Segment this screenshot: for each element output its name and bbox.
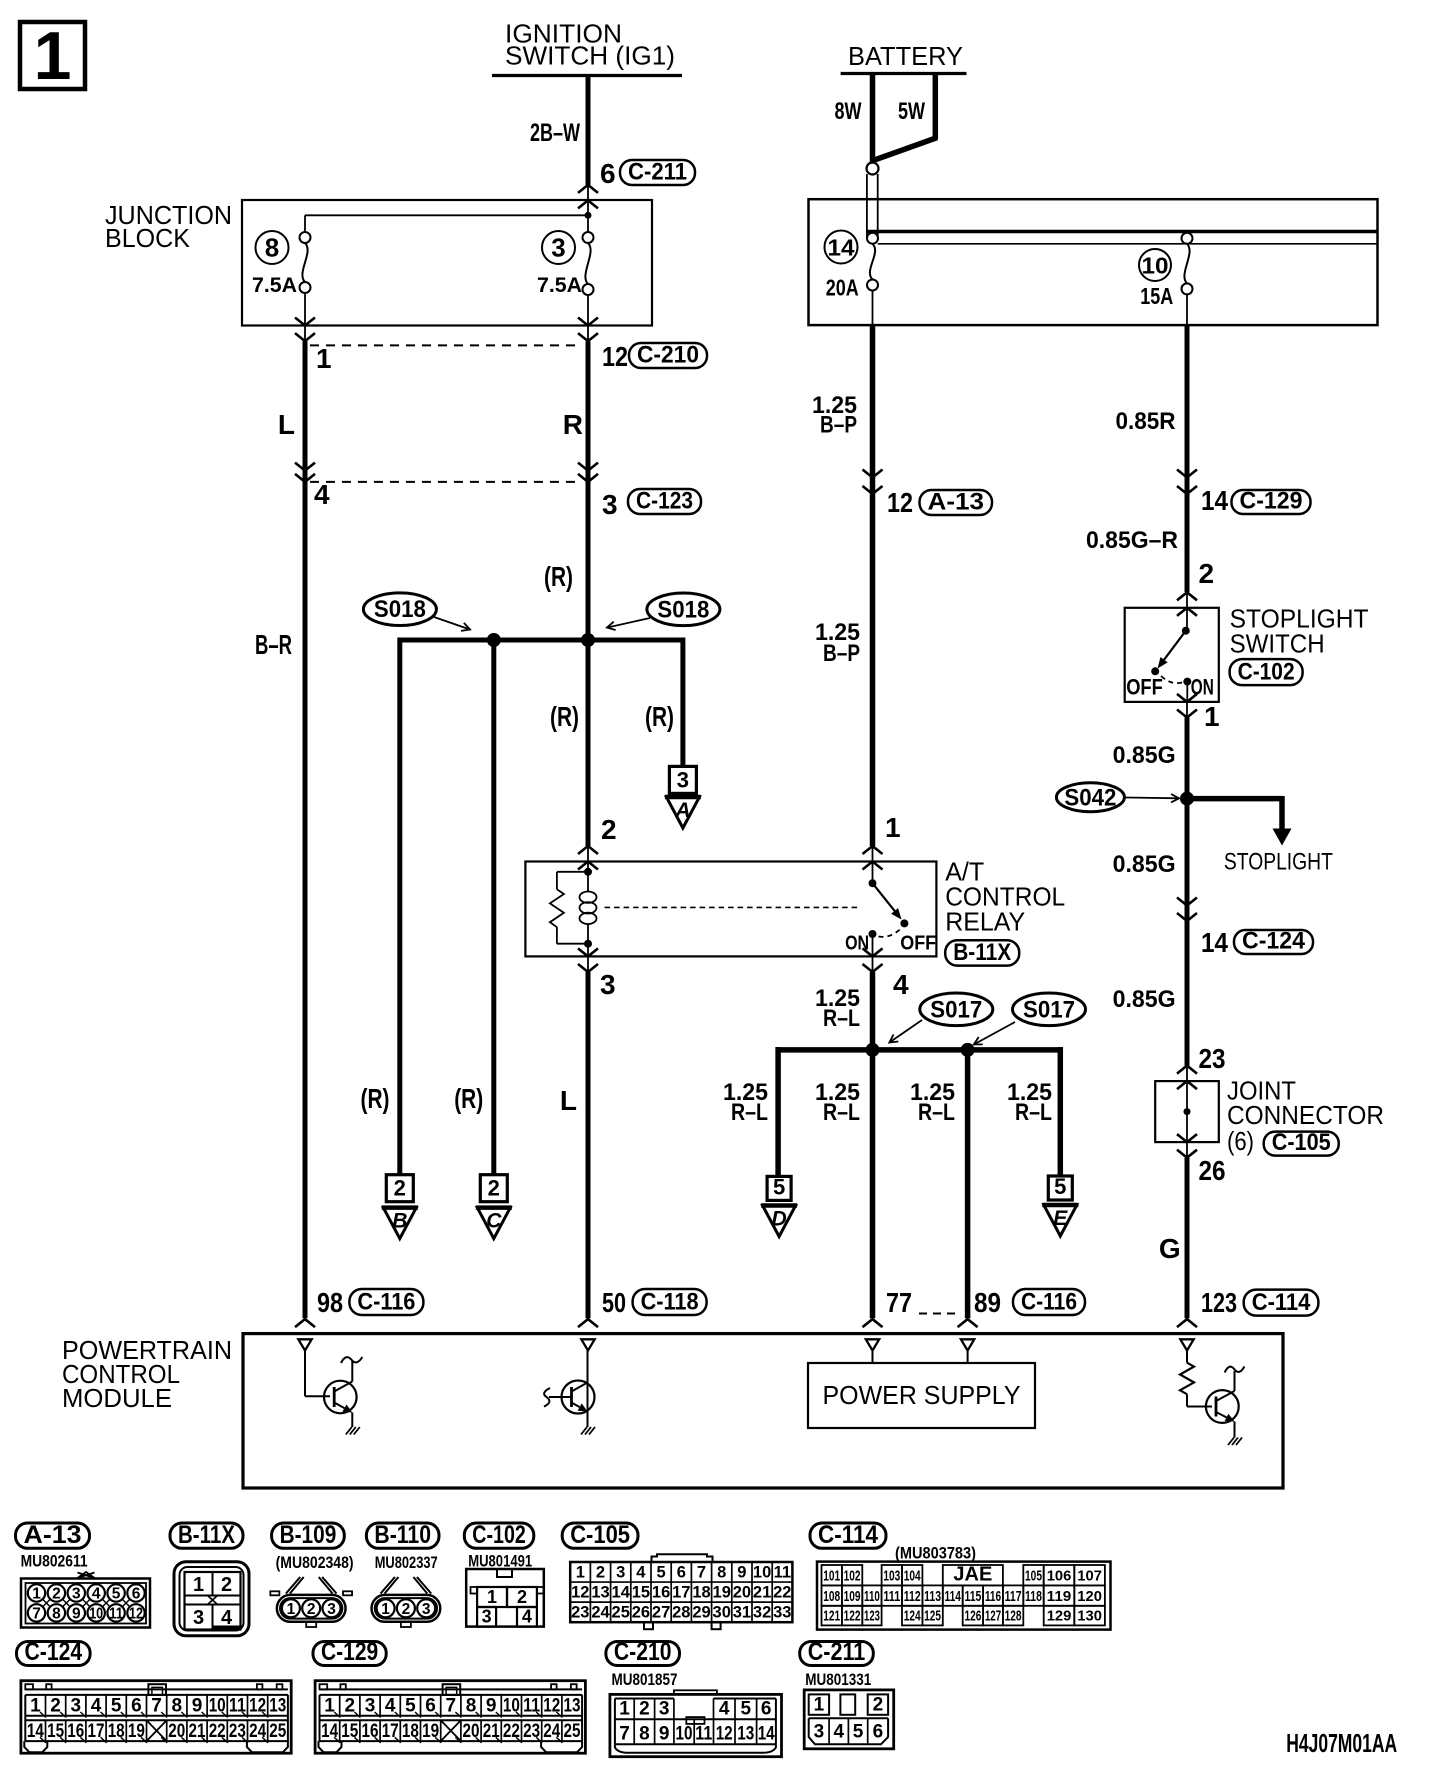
connector B-110 pinout <box>372 1595 441 1622</box>
stoplight switch OFF contact dot <box>1151 667 1159 675</box>
relay contact arm <box>873 883 895 911</box>
page number box <box>20 22 85 89</box>
wire joint entry lead <box>1186 1066 1188 1082</box>
svg-text:1: 1 <box>193 1574 204 1596</box>
connector C-116 ref right <box>1013 1289 1085 1315</box>
fuse 8 bottom lead <box>304 293 306 326</box>
svg-text:6: 6 <box>677 1563 686 1581</box>
svg-text:22: 22 <box>209 1721 226 1742</box>
wire S018 splice bar <box>400 638 683 643</box>
svg-text:119: 119 <box>1047 1588 1072 1605</box>
svg-text:106: 106 <box>1047 1567 1072 1584</box>
svg-text:R–L: R–L <box>731 1099 768 1126</box>
ground Q4 <box>1228 1438 1234 1446</box>
svg-text:112: 112 <box>904 1588 921 1605</box>
splice S042 ref <box>1056 783 1124 812</box>
svg-text:14: 14 <box>758 1724 775 1745</box>
svg-text:50: 50 <box>602 1287 626 1318</box>
svg-text:E: E <box>1053 1207 1068 1230</box>
svg-text:L: L <box>278 409 295 440</box>
relay actuation dashed line <box>605 906 860 908</box>
relay entry chevrons contact <box>863 846 883 854</box>
svg-text:77: 77 <box>886 1287 912 1318</box>
joint connector box <box>1155 1081 1219 1142</box>
svg-text:9: 9 <box>737 1563 746 1581</box>
svg-text:S017: S017 <box>930 996 982 1023</box>
connector C-114 ref <box>1244 1290 1319 1316</box>
svg-text:1: 1 <box>324 1696 335 1717</box>
svg-text:1: 1 <box>30 1696 41 1717</box>
svg-text:4: 4 <box>893 969 909 1000</box>
transistor Q4 emitter <box>1216 1412 1226 1417</box>
relay OFF contact dot <box>900 919 908 927</box>
fusible link lead-in double wire <box>866 174 868 237</box>
svg-text:12: 12 <box>571 1583 589 1601</box>
svg-text:13: 13 <box>269 1696 286 1717</box>
svg-text:16: 16 <box>652 1583 670 1601</box>
connector B-11X ref <box>945 940 1019 965</box>
svg-text:MU802337: MU802337 <box>375 1553 438 1572</box>
relay ON contact dot <box>869 930 877 938</box>
svg-text:MU801331: MU801331 <box>805 1670 871 1689</box>
terminal 2 pin box C <box>480 1175 507 1202</box>
svg-text:(R): (R) <box>550 701 579 732</box>
wire relay entry lead contact <box>872 846 874 862</box>
svg-text:109: 109 <box>844 1588 861 1605</box>
svg-text:7: 7 <box>446 1696 457 1717</box>
PCM pin 98 terminal <box>298 1339 311 1350</box>
svg-text:23: 23 <box>1199 1043 1226 1074</box>
svg-text:S018: S018 <box>657 596 709 623</box>
relay coil <box>580 892 597 903</box>
wire relay exit lead coil <box>587 956 589 972</box>
svg-text:B-11X: B-11X <box>953 939 1011 966</box>
connector C-211 pinout <box>804 1690 894 1749</box>
fuse 8 number circle <box>256 231 289 264</box>
svg-text:2: 2 <box>488 1176 500 1201</box>
svg-text:3: 3 <box>616 1563 625 1581</box>
svg-text:2: 2 <box>52 1586 61 1603</box>
svg-text:12: 12 <box>716 1724 733 1745</box>
wire stoplight branch <box>1187 796 1282 802</box>
svg-text:24: 24 <box>591 1603 610 1621</box>
svg-text:104: 104 <box>904 1567 921 1584</box>
connector C-105 ref <box>1264 1132 1339 1156</box>
svg-text:121: 121 <box>823 1607 840 1624</box>
PCM pin 123 chevron <box>1177 1319 1197 1327</box>
wire joint exit lead <box>1186 1142 1188 1158</box>
resistor R1 <box>1180 1363 1194 1395</box>
svg-text:1: 1 <box>576 1563 585 1581</box>
svg-text:B: B <box>392 1210 407 1233</box>
svg-text:108: 108 <box>823 1588 840 1605</box>
relay contact bottom lead <box>872 934 874 956</box>
svg-text:17: 17 <box>382 1721 399 1742</box>
svg-text:5: 5 <box>853 1722 864 1743</box>
svg-text:5: 5 <box>112 1586 121 1603</box>
terminal arrow C <box>477 1208 510 1239</box>
svg-text:C-114: C-114 <box>1252 1289 1311 1316</box>
relay exit chevrons contact <box>863 948 883 956</box>
wire battery 5W <box>933 74 939 140</box>
PCM pin 50 terminal <box>581 1339 594 1350</box>
svg-text:SWITCH (IG1): SWITCH (IG1) <box>505 41 675 71</box>
svg-text:3: 3 <box>72 1586 81 1603</box>
svg-text:5: 5 <box>773 1174 785 1199</box>
svg-text:7: 7 <box>619 1724 630 1745</box>
fusible link ring terminal <box>867 163 879 175</box>
connector C-124 ref <box>1234 930 1313 954</box>
wire 0.85G stoplight to splice <box>1185 718 1190 1066</box>
svg-text:C-114: C-114 <box>818 1521 878 1549</box>
svg-text:S042: S042 <box>1064 784 1116 811</box>
relay dashed throw <box>879 929 901 937</box>
svg-text:1: 1 <box>316 343 332 374</box>
wire branch to terminal A <box>680 638 685 767</box>
relay contact top lead <box>872 862 874 884</box>
svg-text:24: 24 <box>249 1721 266 1742</box>
svg-text:C-211: C-211 <box>628 159 687 186</box>
svg-text:(MU802348): (MU802348) <box>276 1553 354 1572</box>
junction block box <box>242 200 652 326</box>
svg-text:4: 4 <box>314 479 330 510</box>
terminal arrow B <box>383 1208 416 1239</box>
svg-text:4: 4 <box>385 1696 396 1717</box>
svg-text:9: 9 <box>486 1696 497 1717</box>
wire branch to terminal B <box>397 638 402 1175</box>
connector C-102 pinout <box>466 1569 544 1627</box>
svg-text:C-124: C-124 <box>1242 928 1306 955</box>
battery bus bar thick <box>867 230 1378 234</box>
svg-text:1: 1 <box>1204 701 1220 732</box>
connector C-114 pinout label <box>810 1523 886 1548</box>
connector A-13 ref <box>920 490 993 515</box>
svg-text:3: 3 <box>365 1696 376 1717</box>
connector C-129 ref <box>1232 490 1311 514</box>
svg-text:1: 1 <box>814 1695 825 1716</box>
svg-text:25: 25 <box>564 1721 581 1742</box>
transistor Q4 internal squiggle <box>1225 1367 1245 1373</box>
wire branch to terminal C <box>491 640 496 1175</box>
svg-text:13: 13 <box>737 1724 754 1745</box>
svg-text:22: 22 <box>503 1721 520 1742</box>
svg-text:7.5A: 7.5A <box>537 274 582 297</box>
connector C-129 chevrons <box>1177 470 1197 478</box>
svg-text:2: 2 <box>50 1696 61 1717</box>
svg-text:8: 8 <box>52 1606 61 1623</box>
svg-text:21: 21 <box>483 1721 500 1742</box>
svg-text:S018: S018 <box>374 596 426 623</box>
svg-text:4: 4 <box>91 1696 102 1717</box>
svg-text:C-211: C-211 <box>808 1638 866 1666</box>
wire G joint connector to PCM <box>1185 1158 1190 1319</box>
connector B-11X pinout <box>174 1562 249 1636</box>
svg-text:3: 3 <box>327 1601 336 1618</box>
svg-text:3: 3 <box>677 767 689 792</box>
svg-text:(R): (R) <box>454 1083 483 1114</box>
svg-text:130: 130 <box>1077 1607 1102 1624</box>
svg-text:11: 11 <box>774 1563 791 1581</box>
connector C-210 exit chevrons left <box>295 318 315 326</box>
connector C-129 pinout <box>315 1681 585 1754</box>
ground Q1 <box>346 1427 352 1435</box>
stoplight switch dashed throw <box>1161 676 1184 683</box>
svg-text:128: 128 <box>1005 1607 1022 1624</box>
svg-text:25: 25 <box>269 1721 286 1742</box>
svg-text:C: C <box>486 1210 502 1233</box>
wire pin 89 to power supply <box>967 1351 969 1364</box>
svg-text:14: 14 <box>612 1583 631 1601</box>
svg-text:(R): (R) <box>645 701 674 732</box>
terminal 2 pin box B <box>386 1175 413 1202</box>
svg-text:3: 3 <box>193 1607 204 1629</box>
stoplight switch entry chevrons <box>1177 592 1197 600</box>
svg-text:116: 116 <box>985 1588 1001 1605</box>
svg-text:25: 25 <box>612 1603 630 1621</box>
svg-text:2: 2 <box>873 1695 884 1716</box>
svg-text:2: 2 <box>402 1601 411 1618</box>
transistor Q2 emitter arrow <box>572 1403 580 1408</box>
svg-text:S017: S017 <box>1023 996 1075 1023</box>
svg-text:7: 7 <box>151 1696 162 1717</box>
svg-text:9: 9 <box>72 1606 81 1623</box>
wire branch to terminal E <box>1058 1047 1064 1176</box>
connector C-123 chevrons right <box>578 463 598 471</box>
transistor Q1 emitter <box>334 1403 344 1409</box>
svg-text:20: 20 <box>463 1721 480 1742</box>
svg-text:120: 120 <box>1077 1588 1102 1605</box>
splice S018 dot 2 <box>581 633 595 647</box>
svg-text:5W: 5W <box>898 98 925 125</box>
svg-text:10: 10 <box>89 1606 103 1623</box>
svg-text:C-102: C-102 <box>472 1521 526 1549</box>
svg-text:15: 15 <box>341 1721 358 1742</box>
svg-text:98: 98 <box>317 1287 343 1318</box>
connector C-114 pinout <box>817 1562 1111 1630</box>
stoplight switch arm <box>1164 631 1186 660</box>
svg-text:14: 14 <box>1201 485 1228 516</box>
PCM pin 123 terminal <box>1180 1339 1193 1350</box>
svg-text:D: D <box>772 1208 787 1231</box>
PCM pin 50 chevron <box>578 1319 598 1327</box>
svg-text:17: 17 <box>88 1721 105 1742</box>
splice S018 arrow right <box>607 618 650 628</box>
svg-text:2B–W: 2B–W <box>530 119 580 147</box>
svg-text:123: 123 <box>864 1607 880 1624</box>
svg-text:0.85R: 0.85R <box>1116 408 1176 435</box>
connector C-211 ref <box>620 160 695 185</box>
svg-text:4: 4 <box>92 1586 101 1603</box>
svg-text:9: 9 <box>659 1724 670 1745</box>
svg-text:C-105: C-105 <box>1272 1129 1331 1156</box>
ignition switch bus line <box>492 74 682 77</box>
svg-text:MU802611: MU802611 <box>21 1552 88 1571</box>
terminal 3 pin box <box>669 766 696 793</box>
junction block internal bus wire <box>305 214 588 216</box>
svg-text:(R): (R) <box>361 1083 390 1114</box>
svg-text:C-116: C-116 <box>1021 1289 1077 1316</box>
svg-text:12: 12 <box>129 1606 143 1623</box>
svg-text:13: 13 <box>564 1696 581 1717</box>
powertrain control module box <box>243 1334 1283 1488</box>
svg-text:A-13: A-13 <box>928 489 985 516</box>
relay exit chevrons coil <box>578 948 598 956</box>
svg-text:24: 24 <box>543 1721 560 1742</box>
connector B-109 pinout <box>277 1595 346 1622</box>
stoplight switch output lead <box>1186 682 1188 702</box>
connector C-124 chevrons <box>1177 898 1197 906</box>
stoplight switch exit chevrons <box>1177 694 1197 702</box>
svg-text:103: 103 <box>883 1567 900 1584</box>
connector A-13 chevrons <box>863 470 883 478</box>
svg-text:R: R <box>563 409 583 440</box>
svg-text:6: 6 <box>600 158 616 189</box>
svg-text:20A: 20A <box>826 275 859 301</box>
fuse 10 symbol <box>1182 233 1193 244</box>
battery fuse box <box>809 199 1378 325</box>
fuse 14 bottom lead <box>872 291 874 326</box>
connector C-105 pinout label <box>562 1523 638 1548</box>
svg-text:15: 15 <box>47 1721 64 1742</box>
connector C-102 ref <box>1230 659 1303 685</box>
wire R-L to PCM 77 <box>870 1050 876 1318</box>
relay contact pivot dot <box>869 879 877 887</box>
svg-text:2: 2 <box>601 814 617 845</box>
svg-text:118: 118 <box>1025 1588 1042 1605</box>
svg-text:28: 28 <box>672 1603 690 1621</box>
svg-text:C-129: C-129 <box>1240 488 1303 515</box>
svg-text:113: 113 <box>924 1588 941 1605</box>
svg-text:111: 111 <box>883 1588 900 1605</box>
svg-text:1: 1 <box>34 18 72 94</box>
relay parallel resistor <box>557 871 588 873</box>
wire 2B-W ignition feed <box>586 76 591 186</box>
wire R-L relay to splice <box>870 972 876 1050</box>
fuse 3 number circle <box>542 231 575 264</box>
svg-text:R–L: R–L <box>823 1005 860 1032</box>
connector C-210 pinout <box>610 1694 782 1756</box>
fuse 3 symbol <box>583 232 594 243</box>
svg-text:STOPLIGHT: STOPLIGHT <box>1224 849 1333 876</box>
terminal arrow D <box>763 1206 796 1237</box>
splice S018 ref left <box>363 593 436 626</box>
svg-text:3: 3 <box>659 1699 670 1720</box>
svg-text:1: 1 <box>487 1587 497 1607</box>
wire C-210 through lead right <box>587 326 589 343</box>
svg-text:124: 124 <box>904 1607 921 1624</box>
stoplight switch pivot dot <box>1182 627 1190 635</box>
terminal 5 pin box E <box>1048 1176 1072 1200</box>
relay coil top dot <box>584 868 592 876</box>
svg-text:10: 10 <box>1142 253 1169 279</box>
svg-text:14: 14 <box>27 1721 44 1742</box>
relay coil bottom lead <box>587 924 589 956</box>
svg-text:C-210: C-210 <box>614 1638 672 1666</box>
svg-text:1: 1 <box>381 1601 390 1618</box>
joint connector entry chevrons <box>1177 1066 1197 1074</box>
svg-text:2: 2 <box>221 1574 232 1596</box>
connector B-110 pinout label <box>366 1523 439 1548</box>
wire battery 8W <box>870 74 876 163</box>
svg-text:8: 8 <box>717 1563 726 1581</box>
svg-text:B–P: B–P <box>823 640 860 667</box>
wire pin 77 to power supply <box>872 1351 874 1364</box>
svg-text:17: 17 <box>672 1583 690 1601</box>
svg-text:33: 33 <box>773 1603 791 1621</box>
svg-text:115: 115 <box>964 1588 981 1605</box>
svg-text:114: 114 <box>945 1588 962 1605</box>
svg-text:JAE: JAE <box>953 1563 992 1585</box>
splice S017 arrow left <box>889 1020 922 1043</box>
svg-text:BATTERY: BATTERY <box>848 41 963 71</box>
svg-text:27: 27 <box>652 1603 670 1621</box>
PCM pin 89 chevron <box>958 1319 978 1327</box>
svg-text:10: 10 <box>209 1696 226 1717</box>
connector C-210 dashed link <box>310 344 582 346</box>
svg-text:0.85G: 0.85G <box>1113 986 1176 1013</box>
svg-text:C-210: C-210 <box>637 342 699 369</box>
connector C-118 ref <box>633 1289 707 1315</box>
terminal arrow A <box>666 797 699 828</box>
connector C-123 dashed link <box>310 481 582 483</box>
svg-text:23: 23 <box>571 1603 589 1621</box>
svg-text:26: 26 <box>1199 1155 1226 1186</box>
connector C-116 dashed link <box>919 1313 961 1315</box>
svg-text:21: 21 <box>753 1583 771 1601</box>
connector C-211 crossing chevrons <box>578 185 598 193</box>
wire S017 splice bar <box>778 1047 1060 1053</box>
svg-text:16: 16 <box>67 1721 84 1742</box>
svg-text:107: 107 <box>1077 1567 1102 1584</box>
svg-text:5: 5 <box>741 1699 752 1720</box>
transistor Q1 base lead <box>304 1351 306 1397</box>
stoplight switch ON contact dot <box>1183 678 1191 686</box>
svg-text:14: 14 <box>1201 927 1228 958</box>
terminal 5 pin box D <box>767 1176 791 1200</box>
svg-text:117: 117 <box>1005 1588 1022 1605</box>
fuse 8 symbol <box>300 232 311 243</box>
transistor Q2 <box>562 1381 595 1414</box>
svg-text:B-110: B-110 <box>374 1521 431 1549</box>
wire relay exit lead contact <box>872 956 874 972</box>
svg-text:20: 20 <box>168 1721 185 1742</box>
splice S017 ref right <box>1013 993 1086 1026</box>
connector A-13 pinout <box>21 1579 150 1628</box>
svg-text:19: 19 <box>128 1721 145 1742</box>
svg-text:8: 8 <box>265 233 279 263</box>
svg-text:B-11X: B-11X <box>178 1521 235 1549</box>
svg-text:122: 122 <box>844 1607 861 1624</box>
svg-text:10: 10 <box>676 1724 693 1745</box>
relay entry chevrons coil <box>578 846 598 854</box>
svg-text:1: 1 <box>619 1699 630 1720</box>
svg-text:2: 2 <box>394 1176 406 1201</box>
svg-text:L: L <box>560 1085 577 1116</box>
connector C-210 exit chevrons right <box>578 318 598 326</box>
svg-text:SWITCH: SWITCH <box>1230 629 1325 659</box>
svg-text:6: 6 <box>425 1696 436 1717</box>
splice S042 arrow <box>1125 797 1179 800</box>
svg-text:23: 23 <box>229 1721 246 1742</box>
wire stoplight exit lead <box>1186 702 1188 718</box>
connector C-105 pinout <box>570 1562 792 1622</box>
svg-text:22: 22 <box>773 1583 791 1601</box>
transistor Q2 collector-emitter wire <box>587 1351 589 1428</box>
svg-text:(MU803783): (MU803783) <box>895 1544 976 1563</box>
svg-text:12: 12 <box>887 487 913 518</box>
svg-text:8W: 8W <box>835 98 862 125</box>
connector C-124 pinout label <box>17 1642 91 1666</box>
